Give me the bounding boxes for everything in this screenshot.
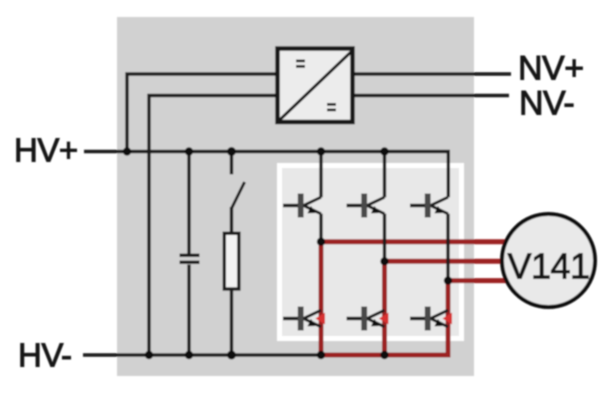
svg-text:NV-: NV- bbox=[519, 85, 574, 123]
svg-text:NV+: NV+ bbox=[518, 50, 584, 88]
svg-text:HV+: HV+ bbox=[14, 132, 78, 169]
svg-text:V141: V141 bbox=[507, 246, 589, 287]
svg-text:HV-: HV- bbox=[18, 337, 72, 374]
